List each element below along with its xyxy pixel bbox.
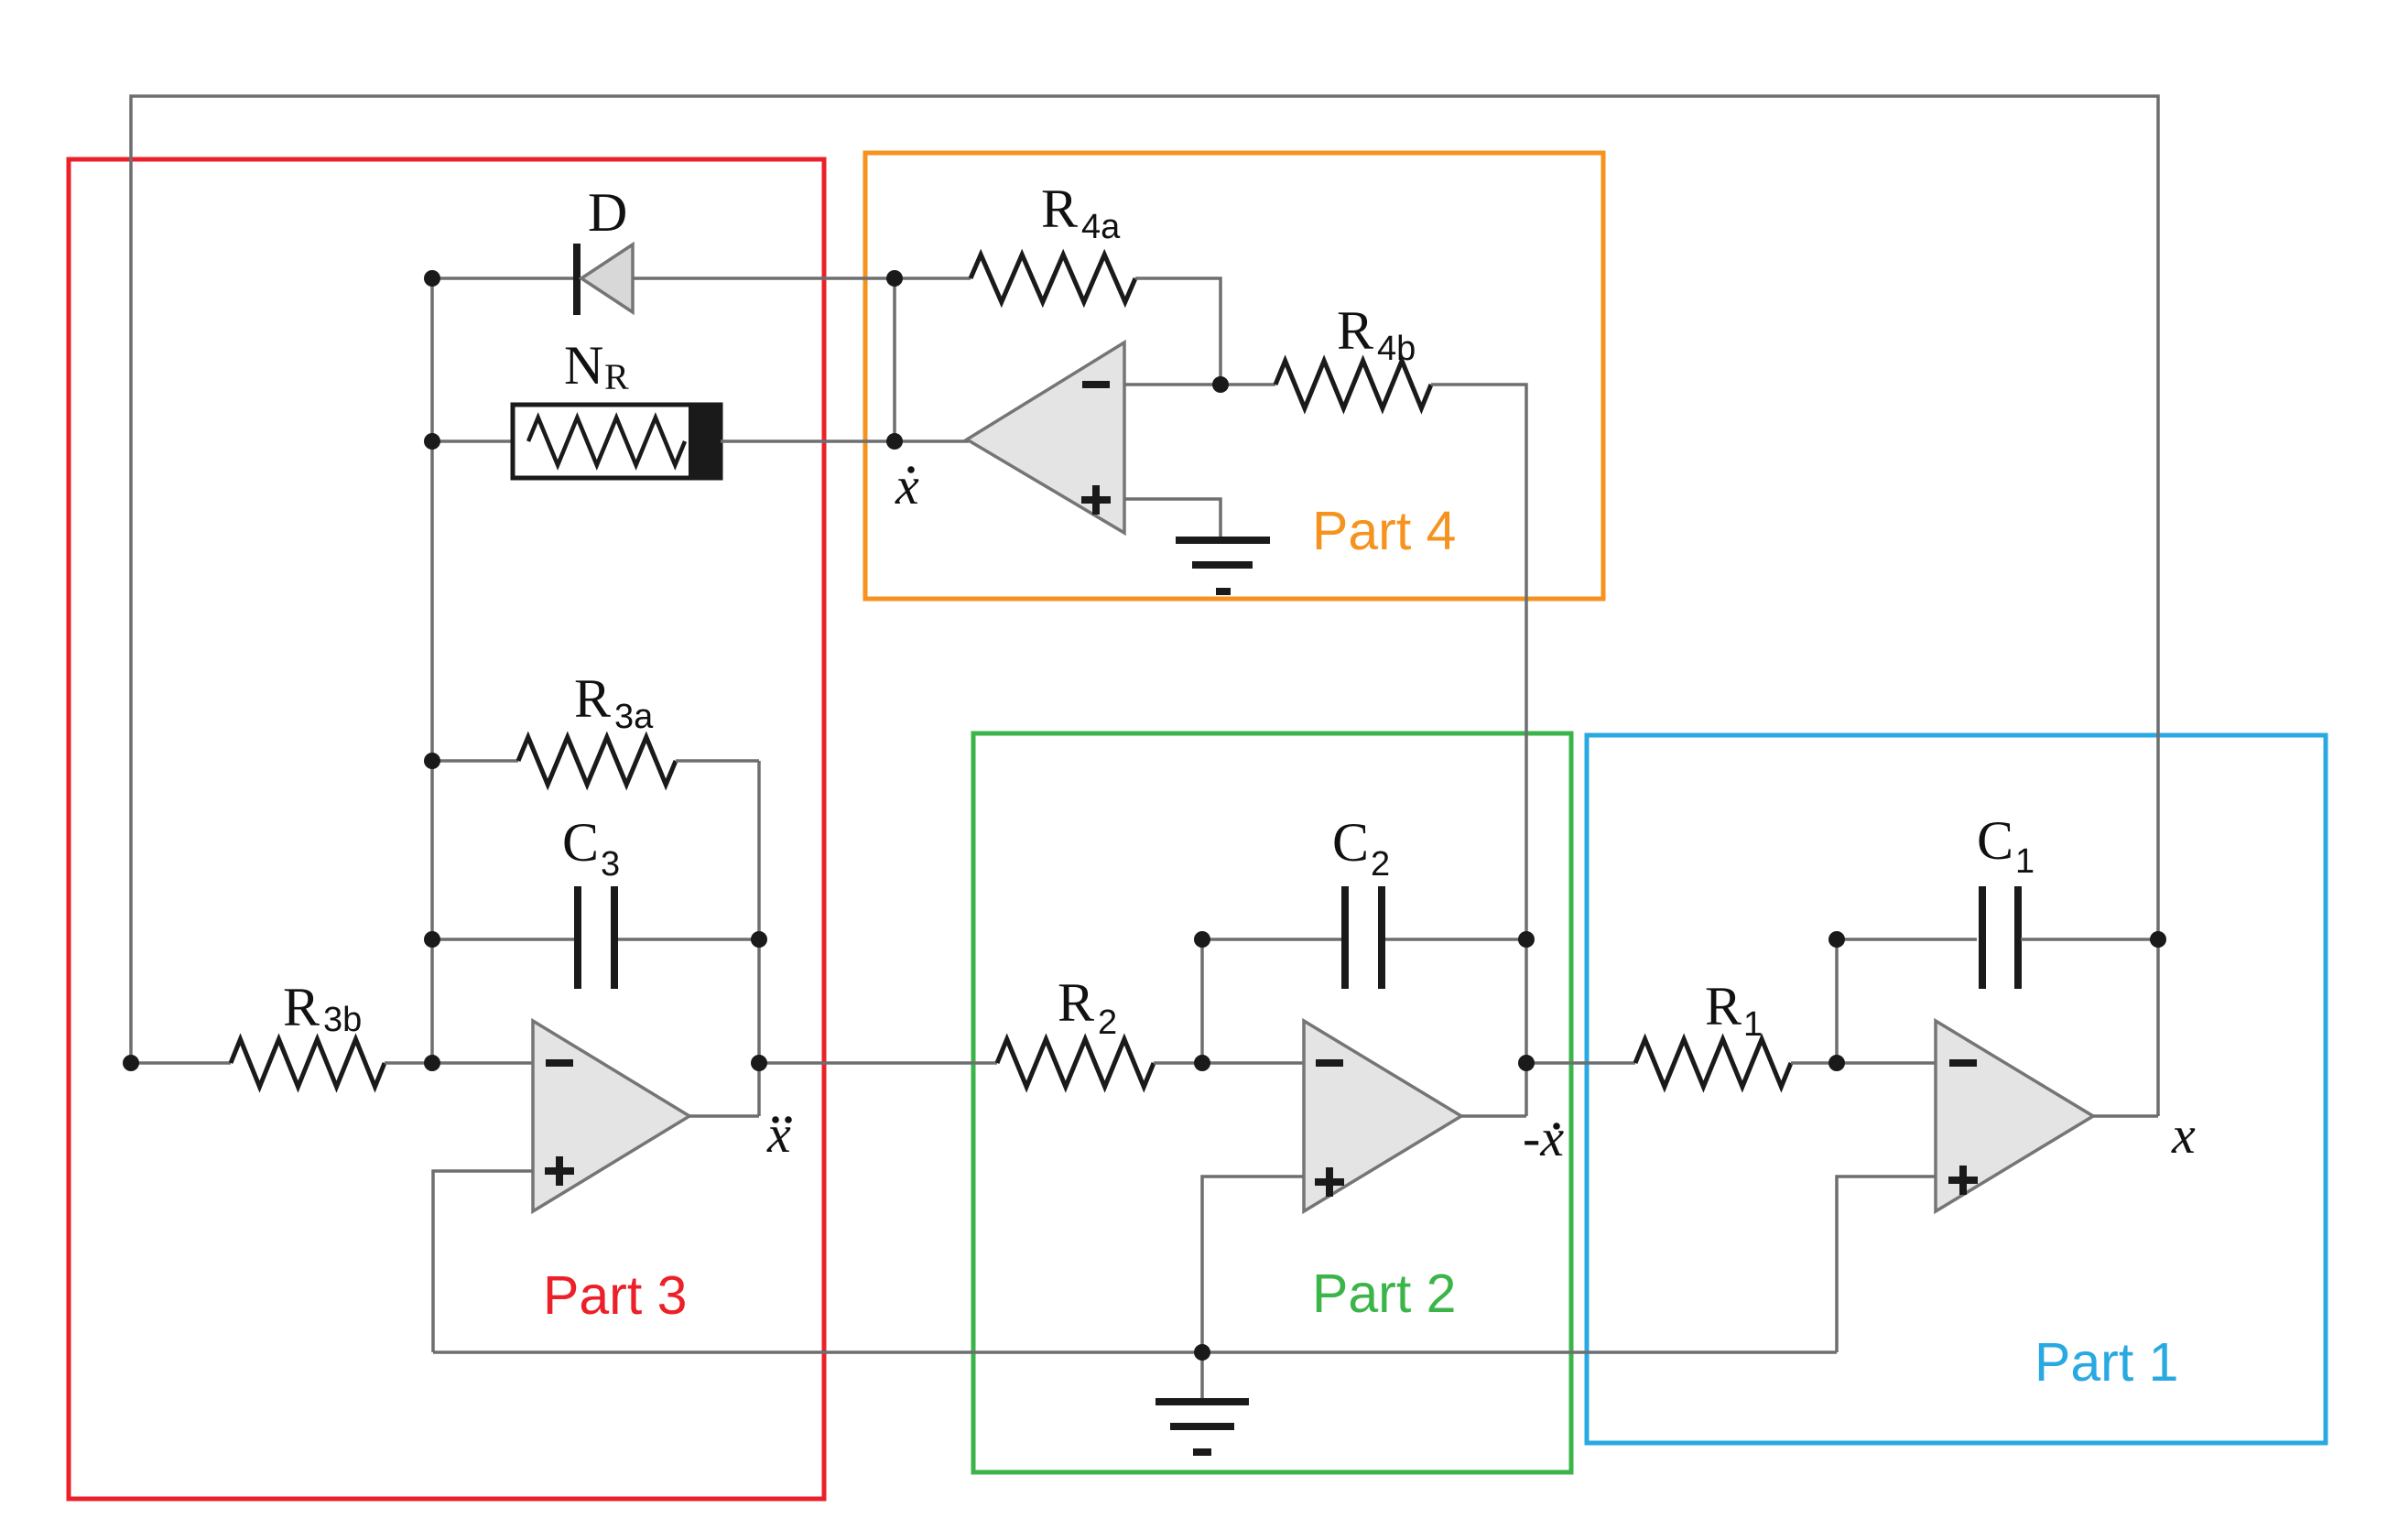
resistor R3a	[518, 737, 676, 785]
op-amp U4 minus sign	[1082, 381, 1110, 388]
op-amp U3 plus sign	[545, 1156, 574, 1186]
op-amp U3	[533, 1021, 689, 1211]
wire: R2 to U2 inverting input	[1154, 1061, 1304, 1065]
capacitor C2 plates	[1341, 886, 1349, 989]
node U4-minus	[1212, 376, 1229, 393]
capacitor C1 plates	[1979, 886, 1986, 989]
node C1-right	[2150, 931, 2166, 948]
wire: C1 left segment	[1837, 938, 1977, 941]
wire: C2 left column	[1200, 939, 1204, 1063]
wire: U3 output	[689, 1114, 759, 1118]
wire: U1 output	[2093, 1114, 2158, 1118]
wire: C2 left segment	[1202, 938, 1341, 941]
wire: R3a left segment	[432, 759, 518, 763]
svg-text:C: C	[1332, 812, 1369, 873]
svg-text:3: 3	[601, 845, 620, 884]
svg-text:D: D	[588, 182, 627, 243]
wire: R4b left segment	[1221, 383, 1275, 386]
svg-text:3b: 3b	[323, 1001, 362, 1039]
svg-text:4a: 4a	[1081, 208, 1121, 246]
wire: C1 left column	[1835, 939, 1839, 1063]
nonlinear resistor NR zigzag	[528, 418, 685, 465]
op-amp U2 minus sign	[1316, 1059, 1343, 1067]
node minus-xdot	[1518, 1055, 1535, 1071]
node U1-minus	[1828, 1055, 1845, 1071]
node NR-left	[424, 433, 440, 450]
node xddot	[751, 1055, 767, 1071]
node xdot	[886, 433, 903, 450]
wire: bottom rail	[433, 1350, 1837, 1354]
op-amp U1 plus sign	[1948, 1166, 1978, 1195]
svg-text:1: 1	[1743, 1005, 1763, 1044]
node C3-left	[424, 931, 440, 948]
svg-text:2: 2	[1371, 845, 1390, 884]
wire: diode branch left	[432, 277, 574, 280]
Part 2 box	[973, 733, 1571, 1472]
resistor R1	[1635, 1039, 1791, 1087]
capacitor C3 plates	[574, 886, 581, 989]
wire: outer feedback loop (x output to R3b input)	[131, 96, 2158, 1116]
resistor R4b	[1275, 361, 1431, 408]
node R3b-in	[123, 1055, 139, 1071]
svg-text:R: R	[1058, 972, 1094, 1033]
wire: C1 right segment	[2021, 938, 2158, 941]
wire: U4 non-inverting input to ground	[1124, 499, 1221, 537]
op-amp U2 plus sign	[1315, 1167, 1344, 1197]
wire: minus xdot node to R1	[1526, 1061, 1635, 1065]
svg-text:3a: 3a	[614, 698, 654, 736]
op-amp U1 minus sign	[1949, 1059, 1977, 1067]
resistor R4a	[971, 255, 1135, 302]
wire: node xdot vertical	[893, 278, 896, 441]
op-amp U3 minus sign	[546, 1059, 573, 1067]
node U2-minus	[1194, 1055, 1210, 1071]
svg-text:Part 3: Part 3	[543, 1265, 687, 1326]
svg-text:R: R	[283, 977, 320, 1037]
wire: R4a left segment	[895, 277, 971, 280]
svg-text:x: x	[2171, 1105, 2196, 1165]
svg-text:C: C	[1977, 810, 2013, 871]
svg-text:Part 2: Part 2	[1312, 1263, 1456, 1324]
wire: NR branch left	[432, 439, 515, 443]
node ground-rail	[1194, 1344, 1210, 1361]
resistor R3b	[231, 1039, 385, 1087]
node C3-right	[751, 931, 767, 948]
wire: C2 right segment	[1385, 938, 1526, 941]
node U3-minus	[424, 1055, 440, 1071]
wire: U4 inverting input	[1124, 383, 1221, 386]
ground for U4	[1176, 540, 1270, 591]
op-amp U1	[1936, 1021, 2093, 1211]
svg-text:Part 1: Part 1	[2035, 1332, 2178, 1393]
node C2-right	[1518, 931, 1535, 948]
Part 4 box	[865, 153, 1603, 599]
nonlinear resistor NR box	[513, 405, 721, 478]
svg-text:x: x	[895, 456, 919, 515]
ground for U2	[1200, 1352, 1204, 1400]
wire: U2 output	[1461, 1114, 1526, 1118]
wire: left column node A	[430, 278, 434, 1063]
svg-text:C: C	[562, 812, 599, 873]
wire: R4b right segment and drop to C2 node	[1431, 385, 1526, 1116]
wire: U1 non-inverting input path	[1837, 1177, 1936, 1352]
diode D triangle	[581, 244, 633, 312]
wire: R3a right segment	[676, 759, 759, 763]
Part 3 box	[69, 159, 824, 1499]
svg-text:Part 4: Part 4	[1312, 501, 1456, 561]
op-amp U4 plus sign	[1081, 485, 1111, 515]
nonlinear resistor NR black block	[689, 405, 721, 478]
op-amp U4	[967, 342, 1124, 533]
node C2-left	[1194, 931, 1210, 948]
wire: NR branch right to node xdot	[721, 439, 895, 443]
wire: R4a right segment down to U4 inverting node	[1135, 278, 1221, 385]
node diode-left	[424, 270, 440, 287]
wire: diode branch right	[633, 277, 895, 280]
diode D cathode bar	[573, 244, 581, 315]
wire: R3b left segment	[131, 1061, 231, 1065]
svg-text:R: R	[1041, 179, 1078, 239]
wire: part3 output column	[757, 761, 761, 1116]
svg-text:R: R	[574, 668, 611, 729]
wire: C3 left segment	[432, 938, 574, 941]
svg-text:R: R	[1337, 300, 1373, 361]
node C1-left	[1828, 931, 1845, 948]
svg-text:4b: 4b	[1377, 330, 1416, 368]
svg-text:x: x	[766, 1104, 791, 1164]
resistor R2	[997, 1039, 1154, 1087]
svg-text:-x: -x	[1523, 1108, 1564, 1167]
node R3a-left	[424, 753, 440, 769]
wire: C3 right segment	[618, 938, 759, 941]
wire: U3 non-inverting input path to bottom rail	[433, 1171, 533, 1352]
svg-text:1: 1	[2015, 842, 2035, 881]
svg-text:R: R	[604, 356, 629, 397]
wire: R1 to U1 inverting input	[1791, 1061, 1936, 1065]
Part 1 box	[1587, 735, 2326, 1443]
wire: R3b to op-amp U3 inverting input	[385, 1061, 533, 1065]
op-amp U2	[1304, 1021, 1461, 1211]
wire: U2 non-inverting input path	[1202, 1177, 1304, 1352]
svg-text:R: R	[1705, 976, 1742, 1036]
wire: xddot node to R2	[759, 1061, 997, 1065]
svg-text:N: N	[564, 335, 603, 396]
svg-text:2: 2	[1098, 1003, 1117, 1042]
node diode-right	[886, 270, 903, 287]
wire: node xdot to op-amp U4 output	[895, 439, 969, 443]
